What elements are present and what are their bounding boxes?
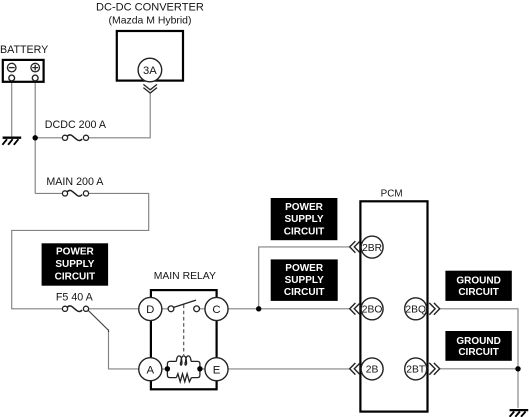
svg-text:3A: 3A	[143, 65, 157, 77]
svg-text:MAIN RELAY: MAIN RELAY	[154, 271, 216, 282]
svg-text:GROUND: GROUND	[456, 276, 500, 287]
svg-text:C: C	[212, 304, 220, 316]
svg-text:SUPPLY: SUPPLY	[284, 214, 323, 225]
svg-text:GROUND: GROUND	[456, 336, 500, 347]
svg-text:CIRCUIT: CIRCUIT	[458, 347, 499, 358]
svg-text:MAIN 200 A: MAIN 200 A	[46, 176, 104, 188]
svg-text:2BR: 2BR	[362, 243, 382, 254]
svg-text:BATTERY: BATTERY	[0, 44, 48, 56]
svg-text:2BT: 2BT	[406, 365, 426, 376]
svg-text:POWER: POWER	[285, 202, 324, 213]
svg-text:CIRCUIT: CIRCUIT	[284, 287, 325, 298]
svg-text:2BQ: 2BQ	[405, 305, 426, 316]
svg-text:PCM: PCM	[381, 189, 403, 200]
svg-text:CIRCUIT: CIRCUIT	[55, 271, 96, 282]
svg-text:(Mazda M Hybrid): (Mazda M Hybrid)	[109, 16, 192, 27]
svg-text:DCDC 200 A: DCDC 200 A	[45, 119, 107, 131]
svg-text:E: E	[213, 364, 221, 376]
svg-text:A: A	[146, 364, 154, 376]
svg-text:POWER: POWER	[56, 247, 95, 258]
svg-text:D: D	[146, 304, 154, 316]
svg-text:F5 40 A: F5 40 A	[56, 292, 94, 304]
svg-text:2B: 2B	[366, 365, 379, 376]
svg-text:DC-DC CONVERTER: DC-DC CONVERTER	[96, 2, 204, 14]
svg-text:SUPPLY: SUPPLY	[285, 275, 324, 286]
svg-text:CIRCUIT: CIRCUIT	[284, 226, 325, 237]
svg-text:2BO: 2BO	[362, 305, 383, 316]
svg-text:POWER: POWER	[285, 263, 324, 274]
svg-text:SUPPLY: SUPPLY	[55, 259, 94, 270]
svg-text:CIRCUIT: CIRCUIT	[458, 287, 499, 298]
